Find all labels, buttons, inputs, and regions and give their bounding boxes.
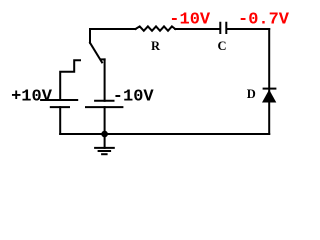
battery B1 +10V short plate xyxy=(51,106,69,108)
svg-text:-10V: -10V xyxy=(113,87,155,106)
wire capacitor to top-right corner xyxy=(227,28,269,30)
ground lead xyxy=(104,134,106,148)
ground bar 1 xyxy=(95,147,114,149)
wire bottom xyxy=(60,133,269,135)
resistor R xyxy=(136,26,176,30)
battery B2 -10V long plate xyxy=(86,106,122,108)
svg-text:C: C xyxy=(217,39,226,53)
battery B2 -10V short plate xyxy=(95,100,113,102)
wire B1 bottom lead xyxy=(59,107,61,134)
wire resistor to capacitor xyxy=(175,28,219,30)
capacitor C plates xyxy=(220,23,226,33)
junction node xyxy=(101,131,108,138)
svg-text:-0.7V: -0.7V xyxy=(238,11,290,30)
svg-text:-10V: -10V xyxy=(169,11,211,30)
battery B1 +10V long plate xyxy=(41,99,77,101)
wire top-left segment xyxy=(90,29,136,43)
ground bar 2 xyxy=(99,150,111,152)
diode D triangle xyxy=(262,90,276,103)
switch S right contact stub xyxy=(101,58,105,60)
svg-text:D: D xyxy=(247,87,256,101)
svg-text:R: R xyxy=(151,39,161,53)
wire right vertical xyxy=(268,29,270,134)
wire step from left switch contact to +10V battery xyxy=(60,60,80,99)
wire switch right contact to -10V battery xyxy=(104,59,106,100)
diode D cathode bar xyxy=(264,88,276,90)
wire B2 bottom lead xyxy=(104,107,106,134)
svg-text:+10V: +10V xyxy=(11,87,53,106)
ground bar 3 xyxy=(102,153,107,155)
switch S blade xyxy=(90,43,102,63)
